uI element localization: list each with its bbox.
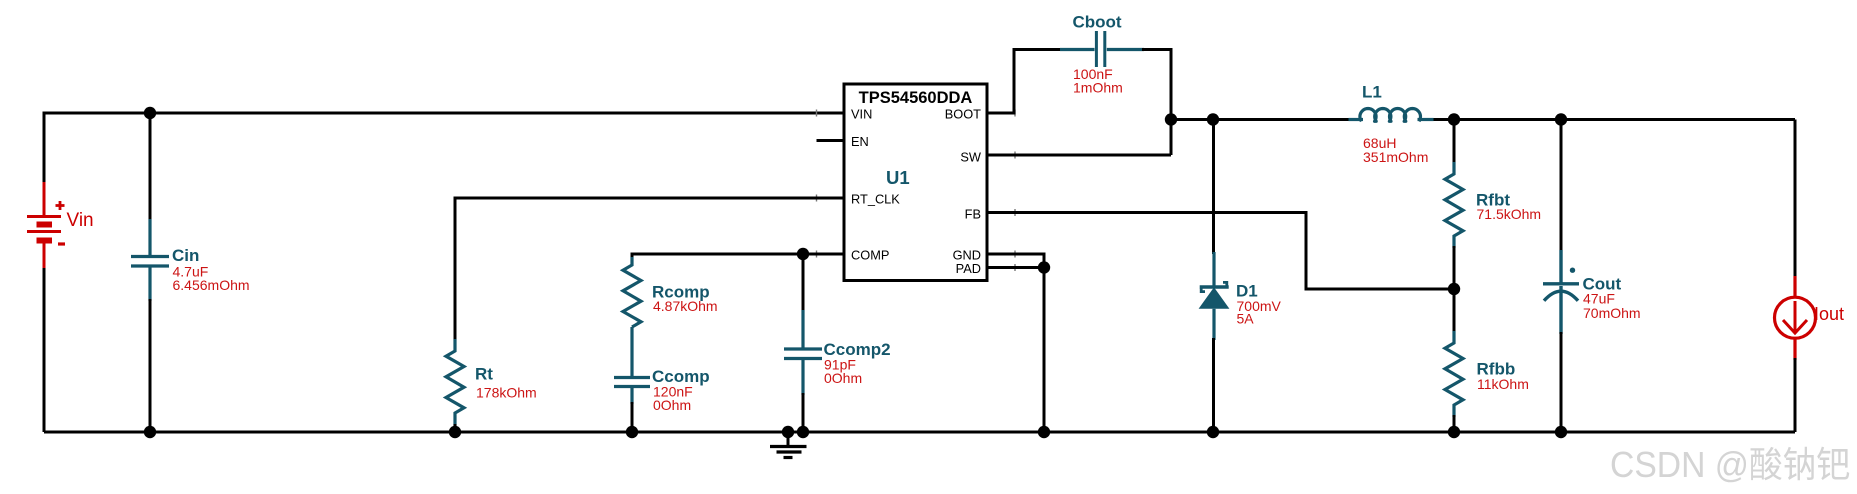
wire: RT_CLK to Rt — [455, 198, 844, 341]
node: Cout bottom junction — [1555, 426, 1567, 438]
node: Cout top junction — [1555, 113, 1567, 125]
wire: Iout to bottom rail — [1794, 358, 1797, 432]
node: COMP/Ccomp2 junction — [797, 248, 809, 260]
svg-text:Iout: Iout — [1814, 304, 1844, 324]
resistor Rt — [446, 339, 464, 426]
wire: BOOT to Cboot — [987, 50, 1062, 114]
node: Rt bottom junction — [449, 426, 461, 438]
wire: GND pin to PAD node — [987, 254, 1044, 268]
svg-text:Rt: Rt — [475, 365, 493, 384]
node: Cin top junction — [144, 107, 156, 119]
svg-text:COMP: COMP — [851, 248, 889, 263]
wire: Ccomp to bottom rail — [631, 402, 634, 432]
svg-text:0Ohm: 0Ohm — [824, 370, 862, 386]
svg-text:L1: L1 — [1362, 83, 1382, 102]
node: FB junction — [1448, 283, 1460, 295]
wire: Rfbt to FB node — [1453, 246, 1456, 289]
svg-text:70mOhm: 70mOhm — [1583, 305, 1641, 321]
op-amp U1 TPS54560DDA box — [844, 84, 987, 281]
capacitor Ccomp — [614, 327, 650, 404]
wire: EN stub — [817, 139, 845, 142]
capacitor Cboot — [1060, 31, 1144, 67]
wire: SW pin to SW node — [987, 154, 1171, 157]
svg-text:Cboot: Cboot — [1073, 13, 1122, 32]
pin tick FB — [1014, 209, 1016, 216]
pin tick RT_CLK — [816, 195, 818, 202]
svg-text:FB: FB — [965, 207, 981, 222]
battery Vin — [27, 182, 65, 268]
capacitor Cout (polarized) — [1543, 250, 1579, 334]
pin tick BOOT — [1014, 110, 1016, 117]
wire: output rail down to Iout — [1794, 120, 1797, 279]
svg-text:Vin: Vin — [67, 210, 94, 231]
wire: L1 to output node — [1434, 118, 1796, 121]
wire: Cout to bottom rail — [1560, 332, 1563, 432]
wire: Cin branch lower — [149, 299, 152, 432]
wire: top-left VIN rail from battery to U1 VIN pin — [44, 113, 844, 182]
wire: Cout branch upper — [1560, 120, 1563, 253]
ground — [770, 432, 807, 458]
current source Iout — [1775, 276, 1816, 360]
svg-text:VIN: VIN — [851, 107, 872, 122]
wire: Cboot to SW node — [1142, 50, 1171, 156]
node: Ccomp bottom junction — [626, 426, 638, 438]
svg-text:PAD: PAD — [956, 261, 981, 276]
pin tick PAD — [1014, 264, 1016, 271]
wire: Ccomp2 branch upper — [802, 254, 805, 312]
wire: Ccomp2 to bottom rail — [802, 393, 805, 432]
wire: PAD pin — [987, 266, 1044, 269]
node: D1 bottom junction — [1207, 426, 1219, 438]
node: L1 output junction — [1448, 113, 1460, 125]
svg-text:Cin: Cin — [172, 246, 199, 265]
pin tick COMP — [816, 251, 818, 258]
resistor Rfbt — [1445, 162, 1463, 248]
wire: D1 branch lower — [1212, 338, 1215, 432]
resistor Rfbb — [1445, 331, 1463, 417]
wire: bottom ground rail — [44, 431, 1795, 434]
wire: Rt to bottom rail — [454, 424, 457, 432]
svg-text:TPS54560DDA: TPS54560DDA — [859, 89, 973, 107]
wire: Rfbb to bottom rail — [1453, 415, 1456, 432]
node: D1 top junction — [1207, 113, 1219, 125]
wire: Rfbt branch upper — [1453, 120, 1456, 165]
svg-text:11kOhm: 11kOhm — [1477, 376, 1529, 392]
node: SW node junction — [1165, 113, 1177, 125]
capacitor Cin — [131, 219, 169, 301]
svg-text:CSDN @酸钠钯: CSDN @酸钠钯 — [1610, 444, 1850, 485]
wire: FB pin to FB node — [987, 213, 1454, 290]
inductor L1 — [1349, 109, 1434, 122]
svg-text:0Ohm: 0Ohm — [653, 397, 691, 413]
wire: PAD node to bottom rail — [1043, 268, 1046, 433]
node: Rfbb bottom junction — [1448, 426, 1460, 438]
node: Cin bottom junction — [144, 426, 156, 438]
pin tick SW — [1014, 152, 1016, 159]
wire: battery negative lead down to bottom rail — [43, 268, 46, 432]
node: PAD bottom junction — [1038, 426, 1050, 438]
diode D1 (schottky) — [1199, 252, 1230, 340]
svg-text:4.87kOhm: 4.87kOhm — [653, 298, 718, 314]
svg-text:1mOhm: 1mOhm — [1073, 80, 1123, 96]
capacitor Ccomp2 — [784, 310, 822, 395]
pin tick VIN — [816, 110, 818, 117]
svg-text:U1: U1 — [886, 167, 910, 188]
svg-text:BOOT: BOOT — [945, 107, 981, 122]
svg-text:71.5kOhm: 71.5kOhm — [1477, 206, 1542, 222]
node: Ccomp2 bottom junction — [797, 426, 809, 438]
wire: COMP to Rcomp — [632, 254, 844, 259]
svg-text:5A: 5A — [1237, 310, 1255, 326]
wire: FB node to Rfbb — [1453, 289, 1456, 333]
resistor Rcomp — [623, 257, 641, 327]
svg-text:EN: EN — [851, 134, 869, 149]
svg-text:RT_CLK: RT_CLK — [851, 192, 900, 207]
wire: D1 branch upper — [1212, 120, 1215, 255]
node: PAD junction — [1038, 261, 1050, 273]
pin tick GND — [1014, 251, 1016, 258]
wire: top output rail to L1 — [1171, 118, 1351, 121]
svg-text:178kOhm: 178kOhm — [476, 385, 537, 401]
svg-text:6.456mOhm: 6.456mOhm — [173, 277, 250, 293]
wire: Cin branch upper — [149, 113, 152, 221]
svg-text:351mOhm: 351mOhm — [1363, 149, 1428, 165]
svg-text:SW: SW — [960, 150, 982, 165]
node: ground junction — [782, 426, 794, 438]
